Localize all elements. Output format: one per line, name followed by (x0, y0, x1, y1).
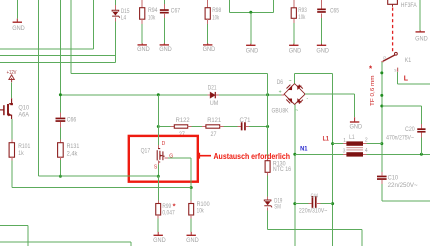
wire R121 to C71 (223, 126, 237, 128)
pin R99 bottom (157, 215, 159, 218)
ground GND7 (316, 44, 329, 55)
bridge pin marks (279, 79, 309, 114)
svg-text:GND: GND (203, 47, 216, 53)
pin C44 left (308, 203, 311, 205)
wire long vertical x332 (332, 74, 334, 247)
capacitor C71 (241, 122, 243, 130)
junction x332 y143 (331, 142, 334, 145)
pin C65 bottom (321, 13, 323, 18)
switch K1 contact (395, 52, 398, 55)
wire vertical x229 (228, 0, 230, 12)
junction x60 y95 (59, 93, 62, 96)
diode D15 (112, 10, 120, 17)
svg-text:R100: R100 (197, 202, 211, 208)
wire to R99 (157, 176, 159, 200)
pin numbers L1 (343, 138, 368, 155)
svg-text:10k: 10k (197, 208, 205, 214)
svg-text:220n/310V~: 220n/310V~ (299, 209, 328, 215)
pin C20 top (420, 124, 422, 128)
ground GND3 (159, 43, 172, 53)
svg-text:27: 27 (211, 132, 218, 138)
svg-text:1: 1 (343, 138, 346, 144)
pin R93 top (293, 0, 295, 8)
svg-text:*: * (173, 201, 176, 210)
wire R99 to GND (157, 218, 159, 232)
wire R122 to R121 (191, 126, 202, 128)
wire top to x332 (295, 73, 333, 75)
svg-text:470n/275V~: 470n/275V~ (386, 136, 414, 142)
svg-text:10k: 10k (148, 15, 156, 21)
pin C10 top (381, 172, 383, 175)
wire C20 upper (420, 106, 422, 124)
svg-text:GND: GND (415, 37, 428, 43)
pin R101 top (11, 140, 13, 143)
resistor R130 (265, 161, 270, 173)
diode D21 (210, 92, 215, 98)
wire horizontal y95 left part (60, 94, 207, 96)
wire to R122 (158, 126, 170, 128)
pin L1-3 (343, 153, 346, 155)
wire horizontal y176 (39, 175, 159, 177)
svg-text:GND: GND (246, 49, 259, 55)
svg-text:+: + (279, 89, 282, 95)
junction N1 (293, 153, 296, 156)
ground GND11 (415, 30, 428, 42)
pin D19 bottom (267, 207, 269, 210)
svg-text:GND: GND (350, 124, 363, 130)
wire net to GND top-left (16, 0, 18, 19)
wire horizontal y49 (0, 48, 94, 50)
junction source node (157, 175, 160, 178)
pin R94 top (141, 0, 143, 8)
pin R122 left (171, 126, 175, 128)
ground GND6 (289, 44, 302, 55)
inductor L1 common-mode choke (346, 141, 363, 145)
svg-text:GND: GND (137, 47, 150, 53)
wire goalpost to GND (250, 12, 252, 44)
svg-text:GND: GND (186, 238, 199, 244)
pin D21 anode (208, 94, 211, 96)
svg-text:D21: D21 (208, 85, 217, 91)
svg-text:R93: R93 (298, 8, 307, 14)
svg-text:A6A: A6A (18, 112, 29, 118)
wire long vertical x295 (294, 105, 296, 247)
pin C66 top (59, 113, 61, 118)
resistor R94 (140, 8, 145, 20)
svg-text:NTC 16: NTC 16 (273, 167, 292, 173)
wire C10 to right edge (382, 200, 430, 202)
annotation red box (129, 136, 198, 182)
resistor R131 (58, 143, 64, 158)
pin D15 cathode (114, 18, 116, 22)
pin R98 top (207, 0, 209, 8)
ground GND8 (153, 232, 166, 244)
wire S contact down (397, 72, 399, 84)
wire gate down (190, 158, 192, 188)
wire P contact long vertical (381, 62, 383, 172)
wire horizontal y187 (12, 187, 191, 189)
svg-text:10k: 10k (298, 15, 306, 21)
svg-text:D6: D6 (277, 80, 284, 86)
wire to R100 (190, 188, 192, 201)
resistor R98 (205, 8, 210, 20)
capacitor C10 (377, 176, 387, 178)
svg-text:GND: GND (153, 238, 166, 244)
svg-text:L1: L1 (323, 136, 330, 142)
diode D19 (264, 200, 272, 207)
wire C67 top (163, 0, 165, 4)
ground GND9 (186, 232, 199, 244)
resistor R100 (189, 204, 194, 216)
wire choke pin4 to right edge (367, 153, 430, 155)
wire x131 to bottom edge (130, 242, 132, 246)
svg-text:SM: SM (274, 204, 281, 210)
wire bottom-left horizontal y225 (0, 225, 28, 227)
svg-text:L4: L4 (121, 16, 127, 22)
wire horizontal y62 (0, 61, 115, 63)
svg-text:Q10: Q10 (18, 105, 29, 111)
svg-text:GND: GND (159, 47, 172, 53)
pin R121 left (202, 126, 206, 128)
resistor R122 (174, 125, 187, 128)
svg-text:GND: GND (289, 49, 302, 55)
dashed relay link (392, 8, 394, 53)
wire Q10 to R101 (11, 119, 13, 140)
pin R100 bottom (190, 215, 192, 218)
wire L line to choke pin1 (333, 143, 343, 145)
junction gate node (190, 186, 193, 189)
ground GND10 (350, 117, 363, 130)
wire R130 to D19 (267, 175, 269, 196)
pin R131 bottom (59, 157, 61, 160)
pin R131 top (59, 140, 61, 143)
svg-text:D15: D15 (121, 9, 130, 15)
wire gate horizontal (168, 157, 191, 159)
svg-text:HF3FA: HF3FA (401, 3, 417, 9)
annotation leader (199, 153, 211, 159)
svg-text:C65: C65 (330, 8, 340, 14)
svg-text:C10: C10 (388, 175, 399, 181)
svg-text:TF 0,6 mm: TF 0,6 mm (370, 75, 376, 106)
junction C20 bottom (420, 153, 423, 156)
junction C44 right (331, 202, 334, 205)
svg-text:1k: 1k (18, 151, 24, 157)
pin R100 top (190, 200, 192, 203)
wire C20 lower (420, 137, 422, 154)
pin R101 bottom (11, 157, 13, 160)
svg-text:R99: R99 (162, 204, 171, 210)
junction x158 y95 (157, 93, 160, 96)
pin R130 bottom (267, 172, 269, 175)
pin Q17 S (157, 160, 159, 164)
svg-text:C20: C20 (405, 127, 415, 133)
svg-text:~: ~ (289, 79, 292, 85)
wire long vertical x38 (38, 0, 40, 176)
wire N1 to choke pin3 (295, 153, 343, 155)
pin C71 left (238, 126, 241, 128)
wire vertical x71 (70, 0, 72, 74)
wire C65 to GND (321, 18, 323, 44)
pin D21 cathode (216, 94, 219, 96)
wire vertical x94 (93, 0, 95, 49)
wire to GND10 (354, 94, 356, 117)
svg-text:P: P (383, 56, 386, 61)
wire x158 between junctions (157, 95, 159, 127)
pin L1-2 (363, 143, 367, 145)
pin R99 top (157, 200, 159, 203)
svg-text:GND: GND (12, 26, 25, 32)
wire R131 to node (59, 160, 61, 176)
wire S contact to right edge (398, 83, 430, 85)
wire bottom horizontal y229 (268, 228, 362, 230)
transistor Q17 (157, 149, 164, 162)
switch S contact (397, 68, 399, 72)
wire C71 to x267 (249, 126, 268, 128)
svg-text:L1: L1 (349, 135, 355, 141)
wire vertical x420 (419, 0, 421, 30)
pin L1-1 (343, 143, 346, 145)
svg-text:N1: N1 (300, 146, 308, 152)
pin Q17 G (165, 157, 168, 159)
wire D15 down to bus (114, 22, 116, 63)
pin R130 top (267, 158, 269, 161)
wire goalpost horizontal (229, 11, 273, 13)
wire choke pin2 to x381 (367, 143, 382, 145)
pin R93 bottom (293, 18, 295, 23)
wire +12V to Q10 (11, 82, 13, 98)
svg-text:L: L (404, 76, 409, 83)
wire bottom horizontal y242 (0, 241, 131, 243)
svg-text:UM: UM (210, 101, 218, 107)
wire horizontal y73 to right (71, 73, 267, 75)
svg-text:10k: 10k (212, 15, 220, 21)
junction x381 y95 (380, 94, 383, 97)
svg-text:0,047: 0,047 (162, 211, 175, 217)
svg-text:C44: C44 (311, 193, 318, 199)
wire x267 vertical upper (267, 74, 269, 158)
wire R98 to GND (207, 24, 209, 44)
capacitor C66 (56, 118, 66, 120)
wire D15 top (114, 0, 116, 5)
relay coil K1 box bottom (388, 0, 398, 4)
wire bridge top up (294, 74, 296, 84)
wire vertical x273 (272, 0, 274, 12)
wire horizontal y55 (0, 54, 115, 56)
pin R122 right (188, 126, 192, 128)
ground GND4 (203, 43, 216, 53)
wire C44 right to x332 (320, 203, 332, 205)
pin D19 top (267, 197, 269, 200)
svg-text:C71: C71 (240, 118, 252, 124)
ground GND2 (137, 43, 150, 53)
pin D15 anode (114, 5, 116, 10)
wire R100 to GND (190, 218, 192, 232)
svg-text:2: 2 (365, 138, 368, 144)
svg-text:~: ~ (295, 108, 298, 114)
pin bridge AC left (281, 94, 284, 96)
pin C44 right (317, 203, 320, 205)
wire to C44 left (295, 203, 309, 205)
svg-text:R122: R122 (176, 118, 191, 124)
svg-text:G: G (169, 153, 173, 159)
svg-text:GBU8K: GBU8K (272, 108, 289, 114)
pin C67 top (163, 4, 165, 10)
svg-text:2,4k: 2,4k (67, 151, 79, 157)
resistor R101 (9, 143, 14, 158)
svg-text:C67: C67 (171, 8, 181, 14)
pin C67 bottom (163, 13, 165, 18)
svg-text:GND: GND (316, 49, 329, 55)
pin R94 bottom (141, 19, 143, 24)
capacitor C67 (160, 9, 169, 11)
junction x158 y126 (157, 125, 160, 128)
wire horizontal y95 right part (219, 94, 281, 96)
junction x381 y106 (380, 105, 383, 108)
wire bridge right (305, 93, 355, 95)
transistor Q10 (0, 98, 13, 119)
svg-text:22n/250V~: 22n/250V~ (388, 183, 419, 189)
bridge rectifier D6 GBU8K (284, 84, 305, 105)
svg-text:R94: R94 (148, 8, 158, 14)
svg-text:R101: R101 (18, 144, 31, 150)
pin C66 bottom (59, 122, 61, 127)
wire x361 to bottom edge (361, 229, 363, 246)
capacitor C20 (417, 128, 425, 130)
svg-text:Austausch erforderlich: Austausch erforderlich (214, 152, 291, 161)
resistor R121 (206, 125, 220, 128)
pin C20 bottom (420, 133, 422, 138)
svg-text:4: 4 (365, 148, 368, 154)
wire C10 lower (381, 184, 383, 201)
pin letters D G S (154, 141, 173, 171)
svg-text:C66: C66 (67, 117, 77, 123)
junction x267 y95 (266, 93, 269, 96)
junction C44 left (293, 202, 296, 205)
pin L1-4 (363, 153, 367, 155)
pin R98 bottom (207, 19, 209, 24)
ground GND1 (12, 19, 25, 32)
svg-text:D: D (162, 141, 166, 147)
wire source to node (157, 164, 159, 176)
pin C71 right (246, 126, 249, 128)
wire R101 down (11, 160, 13, 187)
resistor R93 (291, 8, 296, 18)
junction x60 y176 (59, 175, 62, 178)
capacitor C65 (317, 9, 326, 11)
junction goalpost (249, 11, 252, 14)
junction x381 y143 (380, 142, 383, 145)
pin C65 top (321, 0, 323, 9)
wire D19 down (267, 210, 269, 229)
wire vertical x60 upper (59, 0, 61, 113)
capacitor C44 (312, 196, 314, 208)
svg-text:3: 3 (343, 149, 346, 155)
wire x28 to bottom edge (27, 226, 29, 246)
junction x381 y73 (380, 71, 383, 74)
wire drain down (157, 127, 159, 146)
wire C66 to R131 (59, 127, 61, 139)
svg-text:R131: R131 (67, 144, 80, 150)
wire R94 to GND (141, 24, 143, 44)
svg-text:Q17: Q17 (141, 148, 151, 154)
wire to C20 top (382, 105, 422, 107)
svg-text:R121: R121 (207, 118, 222, 124)
ground GND5 (246, 44, 259, 55)
pin Q17 D (157, 145, 159, 148)
pin C10 bottom (381, 180, 383, 184)
resistor R99 (156, 204, 161, 216)
wire R93 to GND (293, 23, 295, 44)
svg-text:R98: R98 (212, 8, 222, 14)
pin R121 right (220, 126, 224, 128)
svg-text:K1: K1 (405, 58, 412, 64)
junction x267 y126 (266, 125, 269, 128)
wire C67 to GND (163, 18, 165, 44)
